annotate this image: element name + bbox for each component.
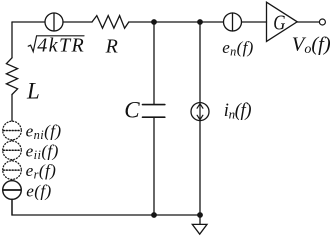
svg-text:L: L bbox=[26, 79, 40, 104]
svg-text:e(f): e(f) bbox=[26, 181, 51, 200]
wire left vertical top bbox=[11, 22, 13, 58]
svg-text:eii(f): eii(f) bbox=[26, 141, 59, 162]
node D dot (ground) bbox=[197, 212, 203, 218]
wire inductor to source stack bbox=[11, 95, 13, 216]
svg-text:4kTR: 4kTR bbox=[37, 34, 85, 56]
node B dot bbox=[197, 19, 203, 25]
wire source to resistor bbox=[63, 21, 92, 23]
wire capacitor branch bottom bbox=[153, 117, 155, 215]
capacitor C plates bbox=[143, 105, 165, 118]
inductor L (zigzag) bbox=[6, 58, 17, 95]
node A dot bbox=[151, 19, 157, 25]
current source i_n bbox=[191, 103, 209, 121]
wire amplifier to output terminal bbox=[297, 21, 319, 23]
wire node B to e_n source bbox=[200, 21, 224, 23]
svg-text:R: R bbox=[105, 36, 118, 58]
wire top-left horizontal bbox=[12, 21, 45, 23]
source e_r (dashed) bbox=[3, 161, 22, 180]
svg-text:en(f): en(f) bbox=[222, 38, 253, 59]
op-amp G triangle bbox=[267, 2, 298, 41]
wire resistor to node A bbox=[129, 21, 154, 23]
noise source e_n bbox=[224, 13, 242, 31]
output terminal circle bbox=[319, 19, 325, 25]
wire e_n source to amplifier bbox=[242, 21, 267, 23]
svg-text:Vo(f): Vo(f) bbox=[292, 33, 330, 57]
label sqrt(4kTR) bbox=[28, 34, 85, 56]
source e (solid) bbox=[3, 181, 22, 200]
svg-text:er(f): er(f) bbox=[26, 161, 57, 182]
svg-text:C: C bbox=[124, 97, 140, 122]
svg-text:eni(f): eni(f) bbox=[26, 121, 62, 142]
ground bbox=[192, 215, 207, 234]
source e_ni (dashed) bbox=[3, 121, 22, 140]
svg-text:in(f): in(f) bbox=[224, 101, 252, 122]
node C dot (capacitor bottom) bbox=[151, 212, 157, 218]
wire node A to node B bbox=[154, 21, 200, 23]
source e_ii (dashed) bbox=[3, 141, 22, 160]
wire bottom rail bbox=[12, 199, 200, 215]
voltage source V1 sqrt(4kTR) bbox=[45, 13, 63, 31]
svg-text:G: G bbox=[273, 11, 286, 35]
resistor R bbox=[92, 16, 129, 29]
wire i_n branch bottom bbox=[199, 121, 201, 215]
wire i_n branch top bbox=[199, 22, 201, 103]
wire capacitor branch top bbox=[153, 22, 155, 104]
